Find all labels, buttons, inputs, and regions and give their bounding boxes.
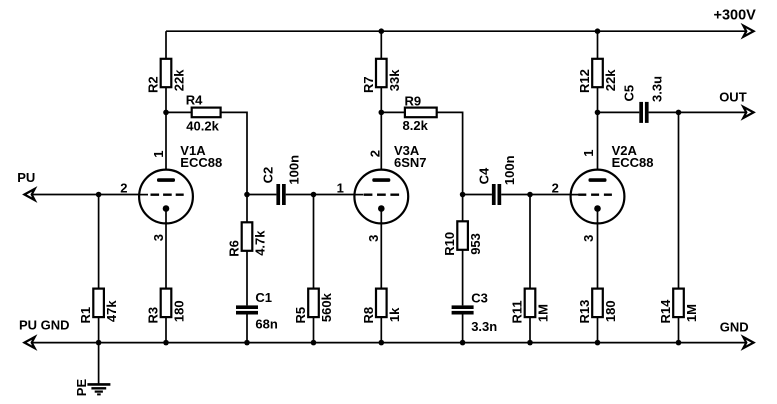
wire V2A cathode to R13	[597, 209, 599, 289]
label GND	[720, 320, 749, 335]
label V2A	[612, 143, 638, 158]
pin 1 V3A	[337, 181, 344, 196]
node PU GND arrow terminal	[24, 337, 34, 348]
resistor R12	[577, 59, 618, 93]
svg-text:3.3n: 3.3n	[471, 319, 497, 334]
node junction rail/R13	[595, 340, 601, 346]
label PU	[17, 170, 35, 185]
wire R12 to V2A anode	[597, 87, 599, 180]
resistor R3	[146, 289, 187, 324]
svg-text:R8: R8	[361, 307, 376, 324]
svg-text:47k: 47k	[104, 300, 119, 322]
svg-text:C1: C1	[255, 290, 272, 305]
svg-text:R5: R5	[293, 307, 308, 324]
wire grid node to C2 left	[247, 194, 276, 196]
svg-text:PU: PU	[17, 170, 35, 185]
wire R9 right to C4 node	[437, 112, 463, 194]
svg-text:PE: PE	[74, 379, 89, 397]
svg-text:R7: R7	[361, 76, 376, 93]
wire R13 to ground rail	[597, 317, 599, 343]
wire C3 to ground rail	[462, 315, 464, 343]
wire R9 left stub	[381, 111, 405, 113]
resistor R9	[403, 93, 437, 133]
wire PU input to V1A grid	[33, 194, 139, 196]
svg-text:ECC88: ECC88	[612, 155, 654, 170]
node +300V arrow terminal	[743, 26, 753, 37]
pin 2 V3A	[367, 150, 382, 157]
wire R14 drop from OUT	[678, 112, 680, 288]
wire rail drop to R7	[380, 31, 382, 59]
wire R11 to ground rail	[529, 317, 531, 343]
wire C4 right to V2A grid	[501, 194, 571, 196]
wire node to C5 left	[598, 111, 640, 113]
svg-text:4.7k: 4.7k	[253, 230, 268, 256]
pin 3 V3A	[366, 235, 381, 242]
wire R4 left stub	[166, 111, 192, 113]
wire R10 to C3	[462, 250, 464, 306]
wire R3 to ground rail	[165, 317, 167, 343]
wire R8 to ground rail	[380, 317, 382, 343]
node junction rail/C1	[244, 340, 250, 346]
svg-text:1M: 1M	[536, 304, 551, 322]
svg-text:R1: R1	[78, 307, 93, 324]
label 6SN7	[394, 155, 427, 170]
tube V3A	[354, 170, 408, 224]
node junction rail/R7	[379, 28, 385, 34]
label +300V	[714, 7, 757, 23]
node junction rail/R11	[527, 340, 533, 346]
node junction rail/R3	[163, 340, 169, 346]
node junction R4/R6/C2	[244, 192, 250, 198]
node junction C4/R11/V2A	[527, 192, 533, 198]
tube V1A	[139, 170, 193, 224]
resistor R13	[577, 289, 618, 324]
label ECC88 V2A	[612, 155, 654, 170]
svg-text:2: 2	[552, 181, 559, 196]
node junction R7/R9/V3A	[379, 110, 385, 116]
wire R2 to V1A anode	[165, 87, 167, 180]
svg-text:180: 180	[603, 300, 618, 322]
resistor R11	[510, 289, 551, 324]
wire V3A cathode to R8	[380, 209, 382, 289]
wire R4 right to grid node	[221, 112, 247, 194]
svg-text:C4: C4	[477, 167, 492, 184]
svg-text:C2: C2	[260, 167, 275, 184]
node junction rail/R8	[379, 340, 385, 346]
tube V2A	[571, 170, 625, 224]
capacitor C1	[236, 290, 278, 332]
pin 3 V1A	[151, 234, 166, 241]
node junction rail/R5	[311, 340, 317, 346]
wire R1 to ground rail	[98, 317, 100, 343]
svg-text:100n: 100n	[286, 155, 301, 185]
wire C1 to ground rail	[246, 315, 248, 343]
svg-text:3: 3	[581, 235, 596, 242]
node PU arrow terminal	[24, 189, 34, 200]
capacitor C4	[477, 155, 518, 205]
svg-text:OUT: OUT	[719, 89, 747, 104]
resistor R7	[361, 59, 402, 93]
node junction C4/R10	[460, 192, 466, 198]
label V1A	[180, 143, 206, 158]
wire R10 drop	[462, 195, 464, 222]
svg-text:1: 1	[151, 150, 166, 157]
wire PE drop	[98, 343, 100, 385]
svg-text:R3: R3	[146, 307, 161, 324]
svg-text:68n: 68n	[255, 317, 277, 332]
svg-text:953: 953	[468, 233, 483, 255]
wire R6 drop from grid node	[246, 195, 248, 223]
node junction C2/R5/V3A	[311, 192, 317, 198]
wire C2 right to V3A grid	[286, 194, 355, 196]
svg-text:GND: GND	[720, 320, 749, 335]
pin 2 V1A	[120, 181, 127, 196]
label PE	[74, 379, 89, 397]
wire R11 drop	[529, 195, 531, 289]
node junction R12/C5/V2A	[595, 110, 601, 116]
node junction R2/R4/V1A	[163, 110, 169, 116]
node junction rail/C3	[460, 340, 466, 346]
resistor R4	[186, 92, 221, 133]
svg-text:R12: R12	[577, 69, 592, 93]
svg-text:40.2k: 40.2k	[186, 118, 219, 133]
svg-text:R11: R11	[510, 300, 525, 323]
wire V1A cathode to R3	[165, 209, 167, 289]
pin 3 V2A	[581, 235, 596, 242]
svg-text:33k: 33k	[387, 69, 402, 91]
node GND arrow terminal	[743, 337, 753, 348]
svg-text:22k: 22k	[172, 69, 187, 91]
svg-text:ECC88: ECC88	[180, 155, 222, 170]
wire rail drop to R12	[597, 31, 599, 59]
resistor R1	[78, 289, 119, 324]
svg-text:2: 2	[367, 150, 382, 157]
label OUT	[719, 89, 747, 104]
node junction rail/R1/PE	[96, 340, 102, 346]
wire node to C4 left	[463, 194, 492, 196]
resistor R14	[658, 289, 699, 324]
svg-text:560k: 560k	[319, 292, 334, 322]
label ECC88	[180, 155, 222, 170]
resistor R5	[293, 289, 334, 324]
svg-text:1k: 1k	[387, 307, 402, 322]
resistor R2	[146, 59, 187, 93]
svg-text:6SN7: 6SN7	[394, 155, 427, 170]
resistor R6	[227, 222, 268, 256]
svg-text:R14: R14	[658, 299, 673, 324]
wire rail drop to R2	[165, 31, 167, 59]
capacitor C2	[260, 155, 301, 205]
pin 1 V2A	[581, 149, 596, 156]
svg-text:22k: 22k	[603, 69, 618, 91]
node junction C5/R14	[676, 110, 682, 116]
wire bottom ground rail	[33, 342, 746, 344]
svg-text:R4: R4	[186, 92, 203, 107]
resistor R8	[361, 289, 402, 324]
wire R5 to ground rail	[313, 317, 315, 343]
svg-text:C3: C3	[471, 290, 488, 305]
svg-text:R10: R10	[442, 232, 457, 256]
ground PE symbol	[87, 384, 110, 394]
svg-text:3: 3	[151, 234, 166, 241]
svg-text:PU GND: PU GND	[19, 317, 70, 332]
svg-text:2: 2	[120, 181, 127, 196]
wire grid node down to R1	[98, 195, 100, 289]
svg-text:R6: R6	[227, 240, 242, 257]
node OUT arrow terminal	[743, 107, 753, 118]
svg-text:R2: R2	[146, 76, 161, 93]
wire R14 to ground rail	[678, 317, 680, 343]
svg-text:8.2k: 8.2k	[403, 118, 429, 133]
wire R7 to V3A anode	[380, 87, 382, 180]
node junction rail/R12	[595, 28, 601, 34]
capacitor C5	[622, 76, 665, 123]
label PU GND	[19, 317, 70, 332]
wire top +300V rail	[166, 30, 746, 32]
svg-text:1: 1	[337, 181, 344, 196]
svg-text:180: 180	[172, 300, 187, 322]
node junction rail/R14	[676, 340, 682, 346]
pin 2 V2A	[552, 181, 559, 196]
svg-text:3: 3	[366, 235, 381, 242]
label V3A	[394, 143, 420, 158]
svg-text:R13: R13	[577, 300, 592, 324]
svg-text:+300V: +300V	[714, 7, 757, 23]
svg-text:R9: R9	[405, 93, 422, 108]
pin 1 V1A	[151, 150, 166, 157]
resistor R10	[442, 221, 483, 256]
wire R5 drop	[313, 195, 315, 289]
svg-text:3.3u: 3.3u	[650, 76, 665, 102]
node junction PU/R1	[96, 192, 102, 198]
svg-text:C5: C5	[622, 85, 637, 102]
wire C5 right to OUT	[649, 111, 747, 113]
svg-text:100n: 100n	[502, 155, 517, 185]
svg-text:1M: 1M	[684, 304, 699, 322]
wire R6 to C1	[246, 251, 248, 306]
capacitor C3	[452, 290, 498, 334]
svg-text:1: 1	[581, 149, 596, 156]
